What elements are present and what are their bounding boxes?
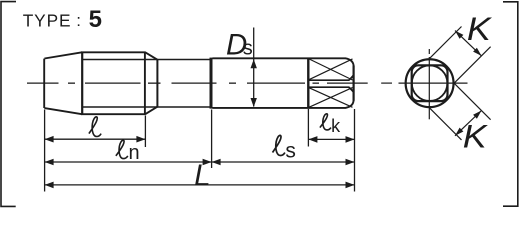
extension line left (x=44.6) [44, 110, 46, 192]
K top extension line A (from circle top) [430, 27, 462, 59]
extension line right (x=354.5) [354, 109, 356, 192]
K bottom arrow upper [473, 111, 481, 119]
K top extension line B (from circle right) [454, 47, 491, 83]
center hole flare top [349, 75, 353, 80]
bottom flute box top edge with flare [308, 87, 353, 91]
K top arrow lower [473, 48, 481, 56]
script ell for lk label [320, 114, 331, 130]
flute section left thick line [307, 58, 309, 108]
svg-text:s: s [285, 139, 296, 162]
script ell for ls label [273, 135, 285, 155]
end view inner circle [412, 65, 448, 101]
svg-text:TYPE: TYPE [23, 10, 72, 30]
taper bottom [145, 107, 157, 115]
square/body boundary line [81, 52, 83, 114]
svg-text:K: K [463, 119, 489, 155]
body end line [144, 52, 146, 114]
taper top [145, 52, 157, 59]
centerline (side view) [27, 82, 368, 84]
end view outer circle [406, 59, 454, 107]
K bottom dimension line [455, 111, 482, 136]
svg-text:L: L [194, 159, 210, 193]
square end left face [43, 59, 45, 108]
K bottom arrow lower [455, 128, 463, 136]
svg-text:5: 5 [89, 6, 102, 33]
bottom box X diagonal 1 [309, 88, 352, 108]
square end top chamfer [44, 52, 82, 58]
end view horizontal centerline [381, 82, 467, 84]
thread bottom edge [213, 100, 354, 108]
L dimension line [45, 184, 355, 186]
svg-text:K: K [467, 12, 493, 48]
body bottom edge [81, 113, 146, 115]
K top arrow upper [455, 31, 463, 39]
center hole flare bottom [349, 87, 353, 92]
K bottom extension line C (from circle bottom) [430, 108, 462, 140]
l dimension line [45, 138, 146, 140]
extension line flute start (x=308.4) [307, 109, 309, 147]
square end bottom chamfer [44, 108, 82, 114]
frame right border with corner ticks [503, 2, 518, 206]
body top edge [81, 51, 146, 53]
end view vertical centerline [428, 49, 430, 119]
top box X diagonal 2 [309, 59, 352, 80]
svg-text:k: k [331, 116, 341, 136]
ln dimension line [45, 161, 212, 163]
K top dimension line [455, 31, 482, 56]
thread right face [353, 66, 355, 101]
svg-text:n: n [129, 142, 140, 164]
lk dimension line [308, 138, 354, 140]
frame left border with corner ticks [1, 2, 16, 207]
neck start line [156, 60, 158, 107]
ls dimension line [212, 161, 355, 163]
extension line junction (x=211.6) [211, 110, 213, 169]
script ell label for l dimension [89, 117, 101, 137]
thick junction line [210, 58, 213, 109]
shank inner bottom line [82, 106, 210, 108]
Ds arrow up [251, 59, 257, 68]
thread top edge [213, 58, 354, 66]
top box X diagonal 1 [309, 59, 352, 80]
end view square [412, 65, 448, 101]
extension line body end (x=145.4) [144, 116, 146, 148]
K bottom extension line D (from circle right) [454, 83, 491, 120]
svg-text::: : [76, 11, 81, 30]
Ds arrow down [251, 98, 257, 107]
shank inner top line [82, 59, 210, 61]
svg-text:s: s [243, 38, 253, 60]
bottom box X diagonal 2 [309, 88, 352, 108]
top flute box bottom edge with flare [308, 76, 353, 80]
script ell for ln label [116, 140, 128, 158]
Ds dimension line [253, 28, 255, 107]
